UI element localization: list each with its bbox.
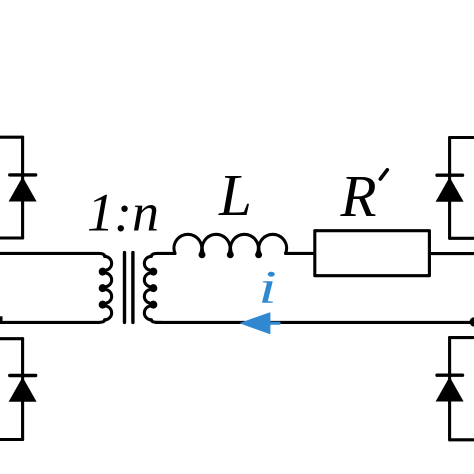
wire vertical D3 <box>21 339 24 440</box>
diode D1 (top-left) <box>0 137 37 238</box>
label R prime mark <box>380 170 387 179</box>
diode D2 triangle <box>436 177 464 202</box>
wire vertical D1 <box>21 137 24 238</box>
wire top stub D4 <box>450 336 474 339</box>
wire vertical D4 <box>448 338 451 440</box>
wire bottom stub D2 <box>450 237 474 240</box>
transformer core bar 1 <box>123 253 126 323</box>
diode D2 (top-right) <box>436 138 474 239</box>
svg-text:1:n: 1:n <box>87 183 159 243</box>
wire top stub D2 <box>450 136 474 139</box>
wire bottom stub D3 <box>0 438 23 441</box>
diode D1 cathode bar <box>10 173 36 176</box>
wire top stub D1 <box>0 136 23 139</box>
secondary winding nub fillers <box>152 270 155 306</box>
wire top stub D3 <box>0 337 23 340</box>
corner remnant at left edge <box>0 316 3 323</box>
transformer core bar 2 <box>131 253 134 323</box>
wire secondary bottom corner <box>151 320 162 323</box>
inductor L <box>174 234 287 256</box>
wire inductor to resistor <box>286 252 315 255</box>
wire bottom stub D1 <box>0 236 23 239</box>
current arrow i (blue) <box>241 313 279 334</box>
diode D4 cathode bar <box>437 374 463 377</box>
wire secondary top corner <box>151 253 175 256</box>
resistor R' box <box>315 231 430 276</box>
wire primary top (to left edge) <box>0 253 105 256</box>
arrow tail <box>270 322 279 325</box>
svg-text:R: R <box>340 163 377 229</box>
arrowhead <box>241 313 270 334</box>
diode D4 (bottom-right) <box>436 338 474 440</box>
primary winding nub fillers <box>101 270 104 306</box>
junction dot (right edge) <box>470 317 474 326</box>
svg-text:i: i <box>258 262 277 313</box>
wire bottom main right part <box>269 321 474 324</box>
wire primary bottom (to left edge) <box>0 320 105 323</box>
diode D1 triangle <box>9 177 37 202</box>
wire bottom main (secondary to right edge) <box>156 321 248 324</box>
diode D3 (bottom-left) <box>0 339 37 440</box>
diode D3 cathode bar <box>10 374 36 377</box>
diode D2 cathode bar <box>437 173 463 176</box>
transformer primary winding <box>100 256 111 319</box>
wire resistor to right edge <box>429 252 474 255</box>
wire vertical D2 <box>448 138 451 239</box>
wire bottom stub D4 <box>450 438 474 441</box>
diode D4 triangle <box>436 377 464 402</box>
diode D3 triangle <box>9 377 37 402</box>
svg-text:L: L <box>218 162 252 228</box>
transformer secondary winding <box>144 256 155 319</box>
inductor L nub fillers <box>201 254 260 257</box>
